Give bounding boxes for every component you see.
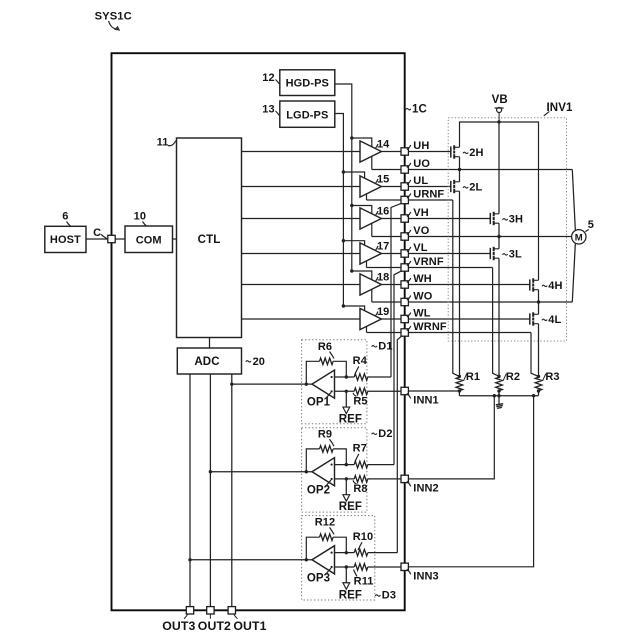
label 3L [503, 254, 508, 255]
wire feedback OP3 [306, 537, 319, 560]
svg-text:13: 13 [262, 104, 274, 116]
wire HGD-PS rail [335, 84, 352, 271]
node R3 bottom [537, 389, 540, 392]
wire VRNF sense down [493, 268, 499, 377]
wire top rail [460, 122, 539, 280]
REF terminal OP1 [343, 407, 350, 414]
pin OUT3 [186, 607, 193, 614]
diff-amp block D3 dashed box [302, 516, 375, 600]
wire VRNF row [367, 267, 493, 269]
svg-text:LGD-PS: LGD-PS [286, 109, 328, 121]
svg-text:WH: WH [413, 273, 432, 285]
svg-text:REF: REF [339, 414, 362, 426]
svg-text:UO: UO [413, 158, 430, 170]
resistor R10 [354, 549, 368, 556]
wire R2 stub [498, 391, 500, 396]
transistor 4L [529, 313, 531, 324]
svg-text:SYS1C: SYS1C [95, 10, 132, 22]
wire R3 stub [538, 391, 540, 396]
wire feedback OP1 [306, 361, 319, 384]
pin VRNF [401, 264, 408, 271]
wire R1 stub [458, 391, 460, 396]
com box COM [125, 226, 173, 253]
driver U18 triangle [360, 274, 381, 295]
svg-text:R11: R11 [354, 575, 374, 587]
transistor 4H [529, 279, 531, 290]
driver U14 triangle [360, 141, 381, 162]
driver U16 triangle [360, 208, 381, 229]
node R3 top [537, 375, 540, 378]
svg-text:WO: WO [413, 290, 432, 302]
wire CTL input to driver 16 [242, 218, 361, 220]
pin INN2 [401, 475, 408, 482]
svg-text:INN1: INN1 [413, 395, 438, 407]
wire non-inverting row OP1 to INN pin [335, 390, 355, 392]
resistor R3 [535, 377, 542, 390]
wire WO line [372, 301, 573, 303]
wire HGD supply tap to driver 14 [352, 138, 372, 147]
wire CTL input to driver 19 [242, 318, 361, 320]
transistor 3L [489, 248, 491, 259]
op-amp OP3 [312, 546, 335, 574]
resistor R1 [456, 377, 463, 390]
wire WRNF to R10 [397, 335, 402, 553]
svg-text:1C: 1C [412, 104, 427, 116]
svg-text:11: 11 [157, 137, 169, 149]
pin WH [401, 281, 408, 288]
svg-text:6: 6 [62, 211, 68, 223]
svg-text:UH: UH [413, 140, 429, 152]
svg-text:INN3: INN3 [413, 570, 438, 582]
svg-text:R7: R7 [353, 443, 367, 455]
wire U phase to motor [572, 170, 575, 232]
wire driver 17 ref to VRNF [366, 261, 368, 268]
svg-text:R6: R6 [318, 341, 332, 353]
pin C [108, 235, 115, 242]
svg-text:12: 12 [262, 72, 274, 84]
svg-text:3H: 3H [509, 213, 523, 225]
wire inverting input row OP2 [335, 464, 355, 466]
pin WRNF [401, 329, 408, 336]
op-amp OP2 [312, 458, 335, 486]
pin UO [401, 166, 408, 173]
wire CTL input to driver 17 [242, 253, 361, 255]
label D1 [372, 346, 377, 347]
wire to REF OP2 [345, 479, 347, 495]
label 20 [246, 361, 251, 362]
driver U19 triangle [360, 308, 381, 329]
svg-text:16: 16 [377, 205, 389, 217]
svg-text:3L: 3L [509, 248, 522, 260]
wire OP3 output to OUT column [190, 559, 312, 561]
wire LGD supply tap to driver 19 [343, 306, 364, 311]
svg-text:COM: COM [136, 235, 162, 247]
svg-text:HOST: HOST [50, 234, 81, 246]
wire to REF OP3 [345, 567, 347, 583]
wire HGD supply tap to driver 16 [352, 206, 372, 214]
pin VH [401, 215, 408, 222]
pin UH [401, 148, 408, 155]
svg-text:17: 17 [377, 240, 389, 252]
label D3 [375, 595, 380, 596]
pin INN1 [401, 387, 408, 394]
hgd-ps box HGD-PS [280, 70, 335, 96]
svg-text:2L: 2L [469, 181, 482, 193]
svg-text:14: 14 [377, 138, 390, 150]
wire OP2 output to OUT column [210, 471, 312, 473]
motor M [572, 230, 586, 244]
host box HOST [45, 226, 86, 252]
wire driver 19 ref to WRNF [366, 326, 368, 332]
wire driver 14 ref to UO node [371, 156, 373, 169]
svg-text:VL: VL [413, 242, 427, 254]
wire 4L source down to R3 [538, 324, 540, 377]
svg-text:CTL: CTL [198, 234, 221, 246]
svg-text:4L: 4L [548, 314, 561, 326]
svg-text:VB: VB [492, 94, 508, 106]
svg-text:WL: WL [413, 307, 430, 319]
wire 4H source to 4L drain [538, 290, 540, 315]
wire 3L source down to R2 [498, 258, 500, 376]
pin VL [401, 250, 408, 257]
svg-text:D1: D1 [378, 340, 392, 352]
wire ground stub [498, 396, 500, 404]
wire inverting input row OP3 [335, 552, 355, 554]
pin WO [401, 298, 408, 305]
svg-text:ADC: ADC [194, 356, 219, 368]
terminal VB [495, 107, 504, 109]
wire VO line [372, 236, 572, 238]
pin OUT1 [228, 607, 235, 614]
svg-text:VO: VO [413, 225, 429, 237]
svg-text:URNF: URNF [413, 188, 444, 200]
svg-text:INN2: INN2 [413, 483, 438, 495]
wire non-inverting row OP3 to INN pin [335, 566, 355, 568]
svg-text:R10: R10 [353, 531, 373, 543]
wire W phase to motor [572, 243, 575, 303]
wire HGD supply tap to driver 18 [352, 271, 372, 280]
resistor R5 [354, 388, 368, 395]
wire LGD-PS rail [335, 114, 344, 307]
svg-text:R9: R9 [318, 428, 332, 440]
pin WL [401, 315, 408, 322]
svg-text:R12: R12 [315, 517, 335, 529]
node V midpoint [497, 235, 500, 238]
driver U17 triangle [360, 243, 381, 264]
adc box ADC [177, 348, 241, 374]
wire CTL to ADC [209, 338, 211, 349]
svg-text:VH: VH [413, 207, 428, 219]
wire INN3 tap [405, 396, 534, 567]
svg-text:OP3: OP3 [307, 572, 330, 584]
svg-text:VRNF: VRNF [413, 256, 444, 268]
node R2 bottom [497, 389, 500, 392]
svg-text:R8: R8 [353, 483, 367, 495]
svg-text:OP1: OP1 [307, 397, 331, 409]
ctl box CTL [177, 138, 242, 338]
pin URNF [401, 196, 408, 203]
wire OUT2 column [209, 374, 211, 610]
pin INN3 [401, 563, 408, 570]
svg-text:D3: D3 [382, 590, 396, 602]
wire shunt common rail [459, 395, 538, 397]
svg-text:R4: R4 [353, 355, 368, 367]
wire UL driver 15 output to gate 2L [381, 186, 450, 188]
svg-text:18: 18 [377, 271, 389, 283]
REF terminal OP3 [343, 583, 350, 590]
resistor R9 [320, 446, 334, 453]
resistor R11 [354, 564, 368, 571]
wire CTL input to driver 18 [242, 284, 361, 286]
node R1 bottom [458, 389, 461, 392]
wire WRNF sense down [531, 333, 539, 377]
diff-amp block D2 dashed box [302, 428, 367, 512]
IC 1C outer box [112, 53, 405, 610]
svg-text:REF: REF [339, 501, 362, 513]
wire INN1 row [405, 390, 460, 392]
svg-text:OUT2: OUT2 [198, 619, 231, 633]
wire driver 18 ref to WO node [371, 289, 373, 302]
svg-text:OP2: OP2 [307, 484, 330, 496]
inverter INV1 dashed box [448, 118, 566, 341]
wire VH driver 16 output to gate 3H [381, 218, 490, 220]
resistor R4 [354, 374, 368, 381]
wire OP1 output to OUT column [232, 383, 312, 385]
svg-text:10: 10 [134, 211, 146, 223]
REF terminal OP2 [343, 495, 350, 502]
diff-amp block D1 dashed box [302, 340, 367, 424]
wire VRNF to R7 [394, 270, 403, 464]
wire COM to CTL [173, 238, 177, 240]
ground [496, 404, 503, 405]
transistor 3H [489, 213, 491, 224]
wire WL driver 19 output to gate 4L [381, 318, 529, 320]
wire to REF OP1 [345, 391, 347, 407]
wire OUT3 column [189, 374, 191, 610]
wire HOST to pin C [86, 238, 112, 240]
label 1C [406, 108, 411, 109]
wire 3H source to 3L drain [498, 223, 500, 249]
svg-text:R2: R2 [506, 371, 520, 383]
pin OUT2 [207, 607, 214, 614]
svg-text:19: 19 [377, 306, 389, 318]
lgd-ps box LGD-PS [280, 101, 335, 127]
wire URNF row [367, 199, 453, 201]
svg-text:R1: R1 [466, 371, 480, 383]
wire URNF sense down [453, 200, 460, 376]
wire INN2 tap [405, 396, 495, 479]
wire OUT1 column [231, 374, 233, 610]
wire feedback OP2 [306, 449, 319, 472]
transistor 2L [450, 181, 452, 192]
lead arrow from SYS1C to chip 1C [109, 21, 117, 29]
svg-text:HGD-PS: HGD-PS [286, 78, 329, 90]
label 2L [463, 187, 468, 188]
wire pin C to COM [112, 238, 126, 240]
transistor 2H [450, 146, 452, 157]
svg-text:D2: D2 [378, 428, 392, 440]
node U midpoint [458, 168, 461, 171]
svg-text:20: 20 [253, 356, 265, 368]
wire VL driver 17 output to gate 3L [381, 253, 490, 255]
svg-text:OUT3: OUT3 [162, 619, 195, 633]
svg-text:4H: 4H [548, 280, 562, 292]
wire CTL input to driver 14 [242, 151, 361, 153]
resistor R2 [496, 377, 503, 390]
wire UO line [372, 169, 573, 171]
wire WRNF row [367, 332, 532, 334]
label D2 [372, 433, 377, 434]
wire WH driver 18 output to gate 4H [381, 284, 529, 286]
wire non-inverting row OP2 to INN pin [335, 478, 355, 480]
wire LGD supply tap to driver 17 [343, 241, 364, 246]
wire driver 15 ref to URNF [366, 194, 368, 200]
pin VO [401, 233, 408, 240]
svg-text:R3: R3 [545, 371, 559, 383]
svg-text:15: 15 [377, 173, 389, 185]
label 2H [463, 152, 468, 153]
svg-text:REF: REF [339, 589, 362, 601]
resistor R8 [354, 476, 368, 483]
wire CTL input to driver 15 [242, 186, 361, 188]
resistor R12 [320, 534, 334, 541]
node R1 top [458, 375, 461, 378]
node W midpoint [537, 300, 540, 303]
wire 2H source to 2L drain [459, 157, 461, 182]
wire 2L source down to R1 [459, 191, 461, 376]
svg-text:M: M [575, 233, 583, 244]
wire VB drop to 3H [498, 122, 500, 214]
svg-text:WRNF: WRNF [413, 321, 447, 333]
op-amp OP1 [312, 370, 335, 398]
resistor R7 [354, 461, 368, 468]
label 4L [542, 319, 547, 320]
driver U15 triangle [360, 176, 381, 197]
resistor R6 [320, 358, 334, 365]
wire inverting input row OP1 [335, 376, 355, 378]
wire driver 16 ref to VO node [371, 223, 373, 236]
svg-text:R5: R5 [353, 396, 367, 408]
svg-text:INV1: INV1 [547, 102, 573, 114]
svg-text:UL: UL [413, 175, 428, 187]
node R2 top [497, 375, 500, 378]
svg-text:OUT1: OUT1 [233, 619, 266, 633]
wire URNF to R4 [391, 203, 403, 377]
wire LGD supply tap to driver 15 [343, 172, 364, 178]
svg-text:5: 5 [588, 219, 594, 231]
svg-text:2H: 2H [469, 147, 483, 159]
label 3H [503, 219, 508, 220]
svg-text:C: C [93, 227, 101, 239]
label 4H [542, 285, 547, 286]
pin UL [401, 183, 408, 190]
wire UH driver 14 output to gate 2H [381, 151, 450, 153]
